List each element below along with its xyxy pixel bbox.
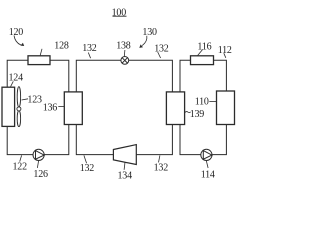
label 120 with arrow — [9, 27, 25, 46]
label 134 with leader — [118, 162, 133, 181]
svg-text:128: 128 — [54, 40, 69, 51]
svg-text:110: 110 — [195, 97, 209, 108]
svg-text:123: 123 — [27, 95, 42, 106]
wire right-bottom: 139 bottom-right pipe down, right through pump 114, up to tank 110 — [180, 124, 226, 154]
label 116 with leader — [197, 41, 211, 55]
wire middle-bottom: compressor 134 right to 139 bottom-left pipe — [136, 124, 172, 154]
heat exchanger 124 — [2, 87, 15, 126]
heat exchanger 139 — [166, 92, 184, 125]
wire bottom-left: heat exchanger 136 bottom-left pipe down, left through pump 126, up to 124 — [7, 124, 69, 154]
title 100 — [112, 7, 127, 18]
svg-text:114: 114 — [201, 170, 215, 181]
svg-text:120: 120 — [9, 27, 24, 38]
svg-text:112: 112 — [218, 45, 232, 56]
wire left-top: from heat exchanger 124 up and right to radiator 128 — [7, 60, 28, 87]
wire right-top: 139 top-right pipe up and right to radiator 116 — [180, 60, 191, 92]
label 138 with leader — [116, 41, 131, 57]
radiator 116 — [191, 56, 214, 65]
pump 126 — [33, 149, 44, 160]
label 112 with leader — [218, 45, 232, 58]
svg-text:122: 122 — [13, 162, 28, 173]
label 110 with leader — [195, 97, 217, 108]
svg-text:116: 116 — [197, 41, 211, 52]
wire right-top: radiator 116 right, down to tank 110 — [213, 60, 226, 91]
svg-text:132: 132 — [82, 43, 97, 54]
pump 114 — [201, 149, 212, 160]
label 132 top-left with leader — [82, 43, 97, 58]
label 122 with leader — [13, 155, 28, 172]
heat exchanger 136 — [64, 92, 82, 125]
label 124 with leader — [9, 73, 24, 87]
label 128 with leader — [40, 40, 69, 55]
radiator 128 — [28, 56, 50, 65]
svg-text:139: 139 — [190, 109, 205, 120]
svg-text:130: 130 — [142, 27, 157, 38]
svg-text:126: 126 — [33, 169, 48, 180]
tank 110 — [217, 91, 235, 125]
label 132 top-right with leader — [154, 44, 169, 58]
expansion valve 138 — [121, 57, 129, 65]
label 132 bottom-left with leader — [80, 155, 95, 173]
svg-text:134: 134 — [118, 170, 133, 181]
svg-text:132: 132 — [154, 163, 169, 174]
label 123 with leader — [22, 95, 43, 106]
svg-text:136: 136 — [43, 102, 58, 113]
wire middle-bottom: 136 bottom-right pipe down and right to compressor 134 — [76, 124, 113, 154]
wire middle-top: 136 top-right pipe up and right to expansion valve 138 — [76, 60, 121, 92]
fan 123 — [17, 87, 21, 127]
svg-text:132: 132 — [80, 163, 95, 174]
svg-text:100: 100 — [112, 7, 127, 18]
svg-text:132: 132 — [154, 44, 169, 55]
label 130 with arrow — [139, 27, 157, 48]
label 139 with tilde leader — [185, 109, 205, 120]
label 114 with leader — [201, 161, 215, 181]
wire middle-top: valve 138 right to heat exchanger 139 top-left pipe — [129, 60, 173, 92]
svg-text:138: 138 — [116, 41, 131, 52]
wire from radiator 128 to heat exchanger 136 top-left pipe — [50, 60, 69, 92]
compressor 134 — [113, 145, 136, 165]
label 136 with leader — [43, 102, 64, 113]
label 132 bottom-right with leader — [154, 155, 169, 173]
label 126 with leader — [33, 161, 48, 180]
svg-text:124: 124 — [9, 73, 24, 84]
